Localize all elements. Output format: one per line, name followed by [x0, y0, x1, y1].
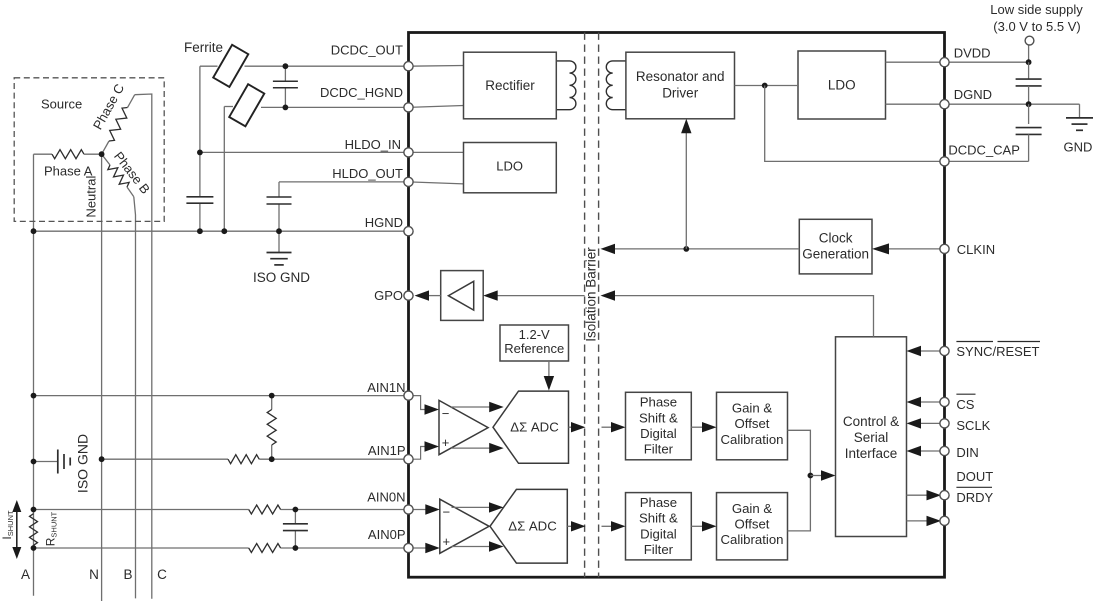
wire AIN0N net	[34, 509, 249, 511]
junction AIN1N at divider	[269, 393, 275, 399]
svg-text:DCDC_HGND: DCDC_HGND	[320, 85, 403, 100]
supply terminal circle	[1025, 36, 1034, 45]
source dashed box	[14, 78, 164, 222]
wire AIN1P net	[102, 458, 228, 460]
ground GND symbol	[1066, 117, 1093, 119]
wire DCDC_HGND to rectifier	[409, 106, 464, 108]
svg-text:Gain &: Gain &	[732, 501, 773, 516]
current arrow ISHUNT (double headed)	[16, 505, 18, 554]
wire resonator to LDO low side	[735, 85, 799, 87]
junction AIN1P at divider	[269, 456, 275, 462]
capacitor DVDD to DGND	[1028, 62, 1030, 79]
pin DCDC_CAP	[940, 157, 949, 166]
wire ferrite1 to HLDO_IN vertical	[199, 66, 201, 197]
svg-text:DRDY: DRDY	[956, 490, 993, 505]
wire ADC0 to barrier	[567, 525, 573, 527]
wire AIN0N to op-amp minus	[409, 509, 428, 511]
pin DVDD	[940, 58, 949, 67]
svg-text:HLDO_IN: HLDO_IN	[345, 137, 401, 152]
wire LDO to DVDD pin	[886, 61, 945, 63]
svg-text:C: C	[157, 567, 167, 582]
junction gain outputs	[808, 473, 814, 479]
svg-text:Calibration: Calibration	[720, 532, 783, 547]
buffer amplifier (GPO driver)	[441, 271, 484, 321]
wire DCDC_HGND net	[261, 106, 409, 108]
junction AIN0N at phase A line	[31, 507, 37, 513]
svg-text:Filter: Filter	[644, 442, 674, 457]
wire DCDC cap branch	[284, 66, 286, 81]
capacitor DGND to DCDC_CAP	[1028, 104, 1030, 124]
wire Gain 0 output to junction	[788, 476, 811, 531]
svg-text:(3.0 V to 5.5 V): (3.0 V to 5.5 V)	[993, 19, 1080, 34]
transformer primary winding (rectifier side)	[556, 61, 576, 110]
svg-text:Interface: Interface	[845, 446, 898, 461]
pin AIN0P	[404, 543, 413, 552]
junction resonator output	[762, 83, 768, 89]
svg-text:Rectifier: Rectifier	[485, 78, 535, 93]
wire DCDC_CAP external	[945, 160, 1029, 162]
junction DCDC_HGND cap	[283, 105, 289, 111]
pin AIN0N	[404, 505, 413, 514]
svg-text:GND: GND	[1064, 139, 1093, 154]
pin DCDC_OUT	[404, 62, 413, 71]
wire AIN1P to op-amp plus	[409, 447, 428, 460]
resistor AIN0P series	[249, 544, 281, 553]
pin DIN	[940, 446, 949, 455]
resistor RSHUNT (vertical)	[30, 514, 38, 546]
svg-text:A: A	[21, 567, 30, 582]
svg-text:Low side supply: Low side supply	[990, 2, 1083, 17]
junction star node	[99, 151, 105, 157]
op-amp A0	[440, 499, 489, 553]
wire HLDO_OUT net	[279, 181, 409, 183]
isolation barrier dashed line left	[584, 33, 586, 578]
wire ADC1 to barrier	[569, 426, 574, 428]
wire phase C vertical line	[135, 94, 152, 599]
svg-text:1.2-V: 1.2-V	[519, 327, 550, 342]
wire DCDC_OUT net	[200, 65, 218, 67]
junction HLDO_IN branch	[197, 150, 203, 156]
pin CS (active low)	[940, 397, 949, 406]
svg-text:LDO: LDO	[496, 159, 523, 174]
wire DIN into control	[919, 450, 940, 452]
svg-text:Shift &: Shift &	[639, 410, 678, 425]
resistor Phase A	[34, 153, 53, 155]
junction AIN1P at neutral line	[99, 456, 105, 462]
ferrite bead FB1	[213, 45, 248, 87]
wire HLDO_IN net	[200, 151, 409, 153]
wire barrier to Phase Shift 0	[602, 525, 614, 527]
svg-text:B: B	[123, 567, 132, 582]
wire Phase Shift 1 to Gain 1	[691, 426, 704, 428]
junction HGND at phase A	[31, 228, 37, 234]
svg-text:CS: CS	[956, 397, 974, 412]
pin HLDO_IN	[404, 148, 413, 157]
wire op-amp A1 to ADC1 upper	[451, 406, 492, 408]
pin CLKIN	[940, 244, 949, 253]
wire buffer to GPO pin	[427, 295, 441, 297]
wire AIN0 filter cap leads	[294, 510, 296, 524]
wire SCLK into control	[919, 422, 940, 424]
svg-text:DIN: DIN	[956, 445, 978, 460]
wire AIN1N to op-amp minus	[409, 396, 428, 410]
junction AIN0P at cap	[293, 545, 299, 551]
block Rectifier	[464, 52, 557, 119]
resistor Phase B (diagonal)	[102, 154, 110, 165]
svg-text:HLDO_OUT: HLDO_OUT	[332, 166, 403, 181]
svg-text:DGND: DGND	[954, 87, 992, 102]
wire DGND to GND	[945, 103, 1080, 105]
wire CLKIN pin to clock generation	[886, 248, 945, 250]
wire SYNC/RESET into control	[919, 350, 940, 352]
svg-text:ISO GND: ISO GND	[253, 270, 310, 285]
svg-text:Serial: Serial	[854, 430, 889, 445]
svg-text:AIN0P: AIN0P	[368, 527, 406, 542]
resistor Phase C (diagonal)	[102, 141, 109, 154]
svg-text:−: −	[443, 505, 451, 520]
block Clock Generation	[799, 219, 872, 274]
junction AIN1N at phase A line	[31, 393, 37, 399]
block Phase Shift & Digital Filter 1	[626, 392, 692, 460]
wire barrier to Phase Shift 1	[602, 426, 614, 428]
pin AIN1N	[404, 391, 413, 400]
svg-text:Neutral: Neutral	[84, 176, 99, 218]
junction AIN0N at cap	[293, 507, 299, 513]
capacitor AIN0 differential	[283, 523, 308, 525]
wire divider resistor leads	[271, 396, 273, 410]
wire HLDO_OUT cap branch	[278, 182, 280, 197]
svg-text:−: −	[442, 406, 450, 421]
pin AIN1P	[404, 455, 413, 464]
junction DCDC_OUT cap	[283, 63, 289, 69]
wire resonator output to DCDC_CAP	[765, 86, 945, 162]
op-amp A1	[439, 400, 488, 454]
wire ferrite2 to HGND vertical	[223, 107, 225, 232]
capacitor HLDO_OUT to HGND	[267, 196, 292, 198]
svg-text:Offset: Offset	[735, 416, 770, 431]
transformer secondary winding (resonator side)	[606, 61, 626, 110]
svg-text:SYNC/RESET: SYNC/RESET	[956, 344, 1039, 359]
wire GPO left of barrier to buffer	[496, 295, 585, 297]
svg-text:DOUT: DOUT	[956, 469, 993, 484]
svg-text:Phase: Phase	[640, 495, 677, 510]
pin SYNC/RESET (active low)	[940, 346, 949, 355]
wire reference to ADC1 arrow	[548, 361, 550, 379]
svg-text:AIN0N: AIN0N	[367, 489, 405, 504]
wire junction to Control Serial Interface	[810, 475, 823, 477]
svg-text:+: +	[443, 534, 451, 549]
svg-text:Isolation Barrier: Isolation Barrier	[584, 247, 599, 342]
svg-text:ΔΣ ADC: ΔΣ ADC	[508, 519, 557, 534]
junction HGND at ISO GND cap	[276, 228, 282, 234]
wire Gain 1 output to junction	[788, 430, 811, 475]
wire AIN0P net	[34, 547, 249, 549]
pin DOUT	[940, 491, 949, 500]
svg-text:Ferrite: Ferrite	[184, 40, 223, 55]
svg-text:Source: Source	[41, 97, 82, 112]
wire DCDC_OUT to rectifier	[409, 65, 464, 68]
svg-text:Digital: Digital	[640, 426, 677, 441]
wire op-amp A0 to ADC0 lower	[452, 546, 493, 548]
wire neutral vertical line	[101, 154, 103, 601]
svg-text:AIN1N: AIN1N	[367, 380, 405, 395]
svg-text:DCDC_CAP: DCDC_CAP	[948, 143, 1020, 158]
block delta-sigma ADC 0	[490, 489, 567, 563]
svg-text:Control &: Control &	[843, 414, 899, 429]
block LDO high side	[464, 143, 557, 193]
wire phase A vertical line	[33, 154, 35, 596]
wire CS into control	[919, 401, 940, 403]
capacitor HLDO_IN to HGND	[186, 196, 213, 198]
svg-text:AIN1P: AIN1P	[368, 443, 406, 458]
svg-text:CLKIN: CLKIN	[957, 242, 995, 257]
svg-text:ISO GND: ISO GND	[75, 434, 91, 493]
block Gain & Offset Calibration 0	[717, 493, 788, 560]
svg-text:Clock: Clock	[819, 231, 853, 246]
svg-text:Digital: Digital	[640, 526, 677, 541]
svg-text:ΔΣ ADC: ΔΣ ADC	[510, 420, 559, 435]
wire ISO GND lead (left)	[34, 461, 58, 463]
svg-text:DVDD: DVDD	[954, 46, 991, 61]
wire control to DRDY pin	[907, 520, 929, 522]
junction HGND at x=224	[221, 228, 227, 234]
svg-text:+: +	[442, 435, 450, 450]
resistor AIN0N series	[249, 505, 281, 514]
pin HLDO_OUT	[404, 177, 413, 186]
wire op-amp A1 to ADC1 lower	[451, 447, 492, 449]
wire phase B vertical line	[134, 197, 136, 599]
wire HLDO_OUT to LDO	[409, 182, 464, 184]
svg-text:Gain &: Gain &	[732, 401, 773, 416]
ferrite bead FB2	[229, 84, 264, 126]
resistor AIN1P series	[228, 455, 259, 464]
wire clock branch to resonator arrow	[685, 132, 687, 249]
wire HLDO_IN to LDO	[409, 151, 464, 153]
block 1.2-V Reference	[500, 325, 569, 361]
wire AIN0P to op-amp plus	[409, 547, 428, 549]
isolation barrier dashed line right	[598, 33, 600, 578]
block Phase Shift & Digital Filter 0	[626, 493, 692, 560]
pin SCLK	[940, 419, 949, 428]
junction DGND	[1026, 101, 1032, 107]
block Control & Serial Interface	[836, 337, 907, 537]
block delta-sigma ADC 1	[493, 391, 569, 463]
svg-text:N: N	[89, 567, 99, 582]
wire supply terminal lead	[1028, 45, 1030, 62]
block LDO low side	[798, 51, 886, 119]
wire GPO from control top (right of barrier)	[615, 296, 874, 337]
junction ISO GND at phase A line	[31, 459, 37, 465]
ground ISO GND (left, rotated)	[57, 450, 59, 474]
svg-text:HGND: HGND	[365, 215, 403, 230]
wire DVDD to supply	[945, 61, 1029, 63]
junction clock branch	[683, 246, 689, 252]
wire HGND net horizontal	[34, 230, 409, 232]
wire ISO GND lead (top)	[278, 231, 280, 252]
resistor divider AIN1N-AIN1P (vertical)	[267, 410, 276, 446]
svg-text:Shift &: Shift &	[639, 511, 678, 526]
pin DCDC_HGND	[404, 103, 413, 112]
svg-text:Driver: Driver	[662, 86, 699, 101]
wire clock generation to barrier	[615, 248, 800, 250]
ground ISO GND (top)	[267, 252, 292, 254]
svg-text:Resonator and: Resonator and	[636, 69, 725, 84]
ground GND lead	[1079, 104, 1081, 118]
capacitor DCDC_OUT-DCDC_HGND	[273, 80, 298, 82]
IC main outline AMC1304	[409, 33, 945, 578]
svg-text:Offset: Offset	[735, 517, 770, 532]
block Resonator and Driver	[626, 52, 735, 119]
svg-text:DCDC_OUT: DCDC_OUT	[331, 43, 403, 58]
svg-text:GPO: GPO	[374, 288, 403, 303]
wire Phase Shift 0 to Gain 0	[691, 525, 704, 527]
junction DVDD cap	[1026, 59, 1032, 65]
wire LDO to DGND pin	[886, 103, 945, 105]
block Gain & Offset Calibration 1	[717, 392, 788, 460]
svg-text:Filter: Filter	[644, 542, 674, 557]
wire control to DOUT pin	[907, 494, 929, 496]
svg-text:Calibration: Calibration	[720, 432, 783, 447]
wire op-amp A0 to ADC0 upper	[452, 506, 493, 508]
pin DGND	[940, 100, 949, 109]
svg-text:Reference: Reference	[504, 341, 564, 356]
svg-text:Generation: Generation	[802, 247, 869, 262]
svg-text:LDO: LDO	[828, 78, 856, 93]
svg-text:Phase: Phase	[640, 395, 677, 410]
svg-text:SCLK: SCLK	[956, 418, 990, 433]
pin HGND	[404, 227, 413, 236]
wire AIN1N net	[34, 395, 409, 397]
pin DRDY (active low)	[940, 516, 949, 525]
junction AIN0P at phase A line	[31, 545, 37, 551]
pin GPO	[404, 291, 413, 300]
junction HGND at x=200	[197, 228, 203, 234]
